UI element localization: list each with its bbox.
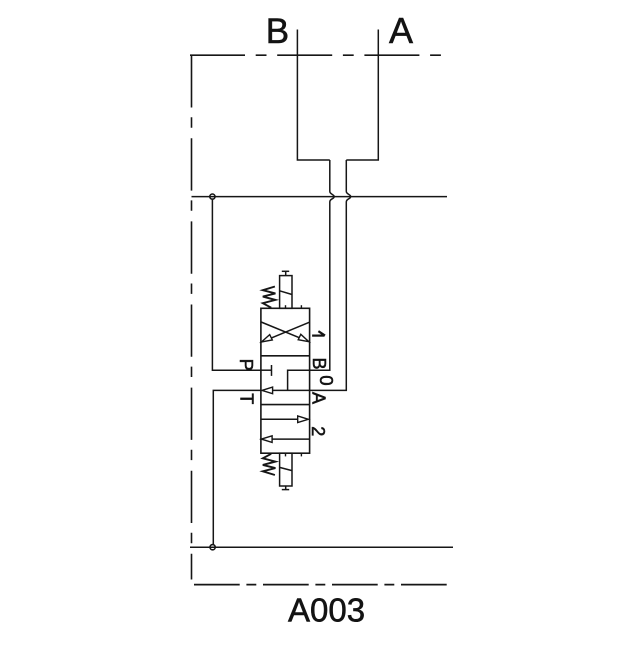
wire P supply to valve: [212, 200, 261, 370]
drawing label A003: [288, 591, 365, 628]
enclosure boundary top (dash-dot): [190, 54, 446, 56]
svg-text:A003: A003: [288, 591, 365, 628]
svg-text:A: A: [389, 10, 413, 51]
pilot stubs on valve top edge: [286, 305, 302, 308]
solenoid S1 pin (manual override): [282, 271, 289, 275]
valve position 0 B-to-tank elbow: [288, 370, 310, 390]
wire port B drop: [297, 30, 329, 161]
svg-text:T: T: [236, 393, 256, 404]
valve port label T (rotated): [236, 393, 256, 404]
solenoid S2 pin (manual override): [282, 486, 289, 490]
wire A vertical with hop over supply line: [310, 160, 351, 390]
solenoid S2 (bottom) box with diagonal: [280, 453, 292, 486]
wire pressure manifold line (top): [192, 196, 448, 198]
valve position 0 A/B to T line with arrow: [262, 387, 310, 394]
node P junction (top manifold): [210, 194, 215, 199]
svg-text:B: B: [266, 12, 289, 51]
valve position 0 blocked P stub with crossbar: [261, 365, 272, 376]
node T junction (bottom manifold): [210, 545, 215, 550]
wire port A drop: [346, 30, 378, 161]
svg-text:0: 0: [316, 375, 337, 385]
valve position 1 crossed flow arrows: [261, 322, 309, 342]
wire T return from valve: [213, 390, 261, 544]
svg-text:A: A: [308, 392, 328, 404]
valve position 2 straight flow arrow (to A): [261, 416, 309, 423]
pilot stubs on valve bottom edge: [286, 453, 302, 456]
enclosure boundary left (dash-dot): [191, 55, 193, 579]
solenoid S1 (top) box with diagonal: [280, 276, 292, 309]
svg-text:B: B: [309, 358, 329, 370]
external port label A: [389, 10, 413, 51]
spring return (top): [263, 287, 276, 308]
enclosure boundary bottom (dash-dot): [194, 584, 447, 586]
valve port label B (rotated): [309, 358, 329, 370]
valve V1 body outline: [261, 308, 310, 453]
valve position label 1 (rotated): [312, 332, 324, 336]
valve position label 2 (rotated): [308, 426, 328, 436]
valve position 2 straight flow arrow (to T): [261, 436, 309, 443]
valve position label 0 (rotated): [316, 375, 337, 385]
svg-text:2: 2: [308, 426, 328, 436]
external port label B: [266, 12, 289, 51]
valve port label P (rotated): [236, 359, 257, 371]
wire tank manifold line (bottom): [190, 546, 453, 548]
spring return (bottom): [263, 454, 276, 475]
wire B vertical with hop over supply line: [310, 160, 335, 370]
svg-text:P: P: [236, 359, 257, 371]
valve port label A (rotated): [308, 392, 328, 404]
